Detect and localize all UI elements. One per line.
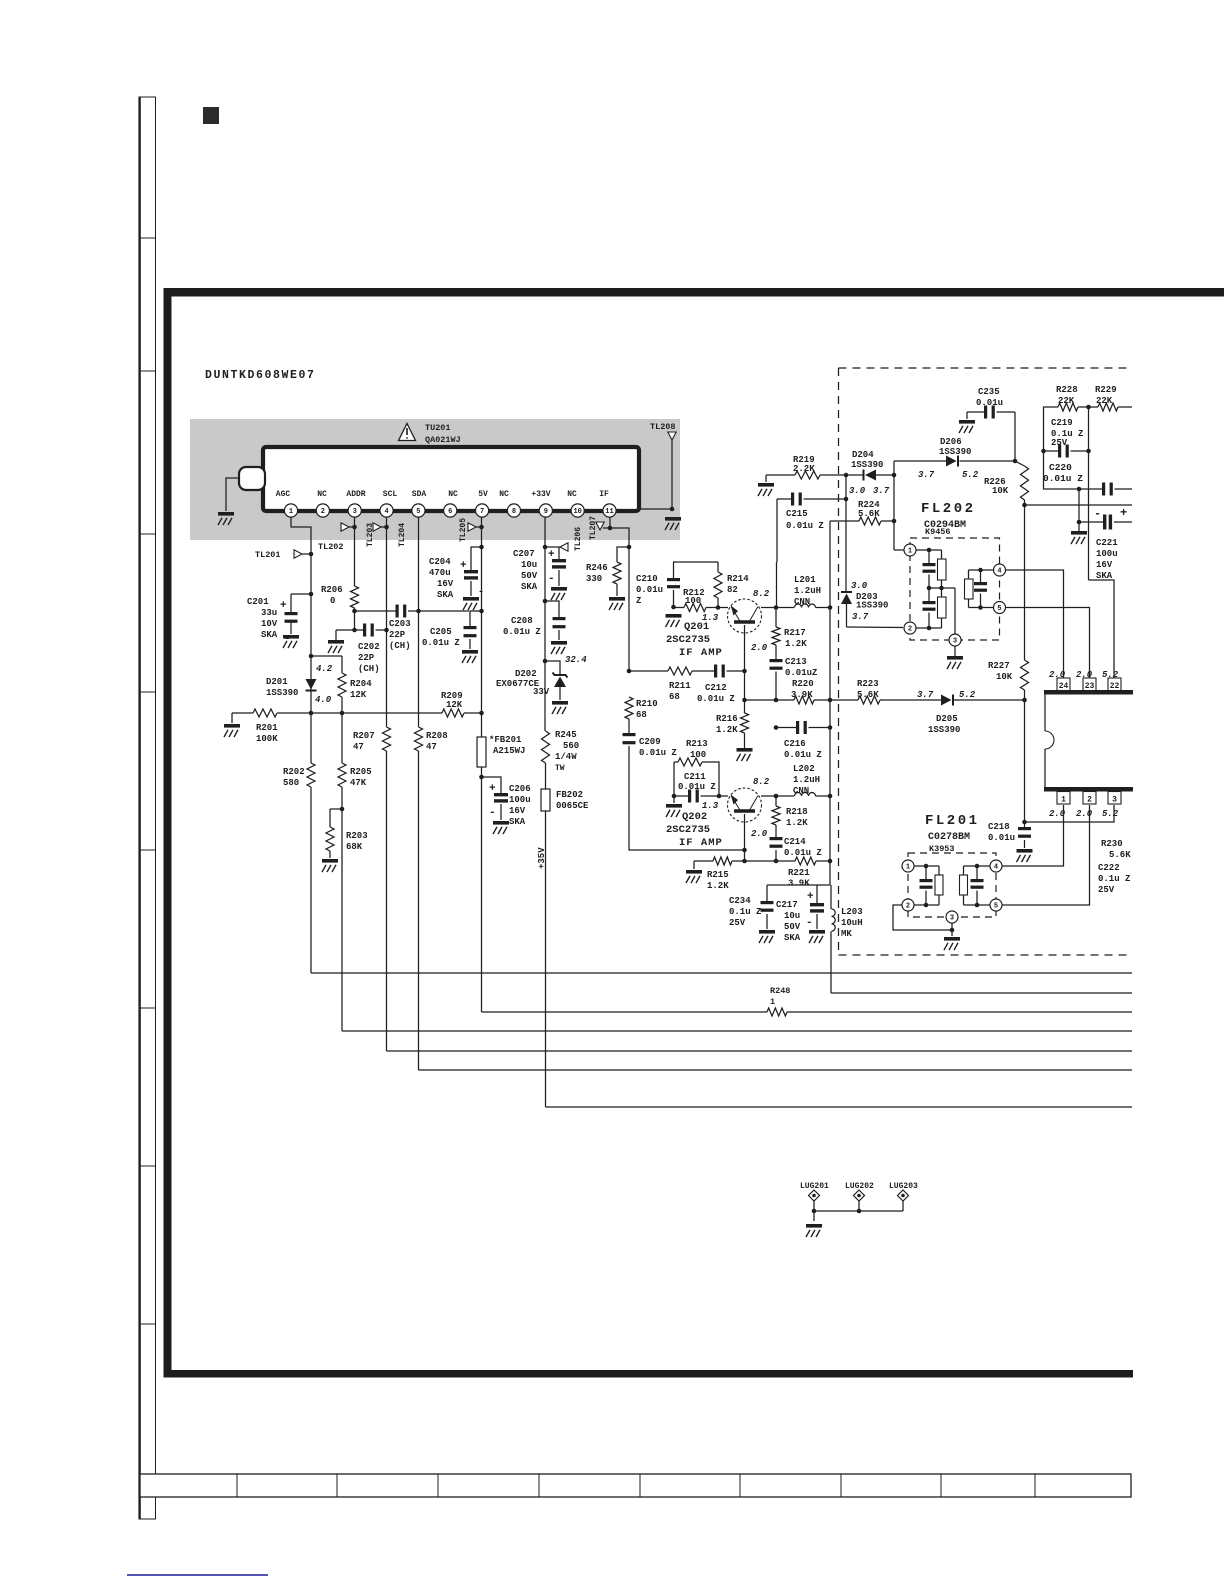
svg-text:*FB201: *FB201: [489, 735, 522, 745]
svg-text:10K: 10K: [996, 672, 1013, 682]
wire Q202 emitter: [744, 814, 746, 861]
IC pin box 2: [1083, 792, 1096, 805]
svg-text:LUG201: LUG201: [800, 1182, 829, 1191]
svg-text:0.01u Z: 0.01u Z: [422, 638, 460, 648]
svg-text:LUG203: LUG203: [889, 1182, 918, 1191]
wire Q201 collector: [761, 607, 776, 609]
svg-text:10uH: 10uH: [841, 918, 863, 928]
svg-text:8.2: 8.2: [753, 589, 770, 599]
ground C218: [1017, 849, 1033, 853]
svg-text:R211: R211: [669, 681, 691, 691]
left margin strip: [139, 97, 156, 1519]
svg-text:2.0: 2.0: [751, 829, 768, 839]
IC pin box 22: [1108, 678, 1121, 691]
wire bus 5V y1012 with R248: [482, 1011, 768, 1013]
svg-text:1: 1: [908, 547, 912, 555]
IC pin box 3: [1108, 792, 1121, 805]
svg-text:560: 560: [563, 741, 579, 751]
FL202 pin5 wire to IC pin23: [1006, 608, 1090, 679]
svg-text:100: 100: [690, 750, 706, 760]
tuner pins 1-11: [284, 504, 297, 517]
ground C211: [666, 804, 682, 808]
svg-text:3: 3: [353, 508, 357, 516]
svg-text:2.0: 2.0: [1076, 809, 1093, 819]
svg-text:R213: R213: [686, 739, 708, 749]
svg-text:25V: 25V: [729, 918, 746, 928]
svg-text:IF: IF: [599, 490, 609, 499]
wire bus AGC y973: [311, 972, 1132, 974]
ground C205: [462, 650, 478, 654]
svg-text:ADDR: ADDR: [346, 490, 365, 499]
wire pin11 down: [609, 517, 611, 528]
svg-text:10K: 10K: [992, 486, 1009, 496]
svg-text:0.1u Z: 0.1u Z: [1098, 874, 1130, 884]
svg-text:8: 8: [512, 508, 516, 516]
svg-text:C215: C215: [786, 509, 808, 519]
svg-text:0.1u Z: 0.1u Z: [729, 907, 761, 917]
FL201 pin5 wire to IC pin2: [1002, 805, 1090, 905]
svg-text:0.01u Z: 0.01u Z: [503, 627, 541, 637]
wire pin22 riser: [1089, 580, 1115, 678]
svg-text:100u: 100u: [509, 795, 531, 805]
svg-text:SKA: SKA: [261, 630, 278, 640]
svg-text:2.0: 2.0: [1076, 670, 1093, 680]
svg-text:C234: C234: [729, 896, 751, 906]
svg-text:R203: R203: [346, 831, 368, 841]
svg-text:1SS390: 1SS390: [939, 447, 971, 457]
ground R201: [224, 724, 240, 728]
svg-text:DUNTKD608WE07: DUNTKD608WE07: [205, 369, 316, 382]
FL201 pin2 ground loop: [893, 905, 952, 930]
svg-text:3.7: 3.7: [873, 486, 890, 496]
svg-text:IF AMP: IF AMP: [679, 837, 723, 849]
svg-text:2: 2: [906, 902, 910, 910]
svg-text:8.2: 8.2: [753, 777, 770, 787]
svg-text:1.3: 1.3: [702, 613, 719, 623]
wire Q202 collector: [761, 795, 776, 797]
ground R216: [737, 748, 753, 752]
svg-text:24: 24: [1059, 682, 1069, 691]
svg-text:+: +: [1120, 506, 1127, 520]
svg-text:2: 2: [1087, 796, 1092, 805]
ground C210 R212: [666, 614, 682, 618]
svg-text:3.7: 3.7: [917, 690, 934, 700]
wire L bus vertical: [829, 608, 831, 886]
svg-text:SKA: SKA: [437, 590, 454, 600]
svg-text:1/4W: 1/4W: [555, 752, 577, 762]
svg-text:32.4: 32.4: [565, 655, 587, 665]
svg-text:100K: 100K: [256, 734, 278, 744]
svg-text:16V: 16V: [509, 806, 526, 816]
svg-text:12K: 12K: [446, 700, 463, 710]
wire bus y1070: [419, 1069, 1133, 1071]
svg-text:R216: R216: [716, 714, 738, 724]
svg-text:R205: R205: [350, 767, 372, 777]
svg-text:3: 3: [950, 914, 954, 922]
svg-text:12K: 12K: [350, 690, 367, 700]
svg-text:C206: C206: [509, 784, 531, 794]
svg-text:SKA: SKA: [509, 817, 526, 827]
schematic frame border: [164, 288, 1224, 297]
svg-text:D205: D205: [936, 714, 958, 724]
wire pin1 net down to D201: [310, 594, 312, 713]
svg-text:2.0: 2.0: [1049, 809, 1066, 819]
FL201 pin 1: [902, 860, 914, 872]
svg-text:5.6K: 5.6K: [1109, 850, 1131, 860]
svg-text:NC: NC: [448, 490, 458, 499]
svg-text:C222: C222: [1098, 863, 1120, 873]
svg-text:LUG202: LUG202: [845, 1182, 874, 1191]
svg-text:1.2uH: 1.2uH: [794, 586, 821, 596]
svg-text:TL207: TL207: [589, 516, 598, 540]
FL202 pin 5: [994, 602, 1006, 614]
svg-text:25V: 25V: [1098, 885, 1115, 895]
svg-text:L202: L202: [793, 764, 815, 774]
svg-text:R207: R207: [353, 731, 375, 741]
svg-text:NC: NC: [499, 490, 509, 499]
wire bias row: [309, 711, 314, 716]
svg-text:3.0: 3.0: [849, 486, 866, 496]
svg-text:0.01u Z: 0.01u Z: [1043, 473, 1083, 484]
svg-text:3.7: 3.7: [918, 470, 935, 480]
FL202 pin4 wire to IC pin24: [1006, 570, 1064, 678]
svg-text:1SS390: 1SS390: [928, 725, 960, 735]
svg-text:C208: C208: [511, 616, 533, 626]
tuner shield gray area: [190, 419, 680, 540]
svg-text:10V: 10V: [261, 619, 278, 629]
svg-text:1.2K: 1.2K: [786, 818, 808, 828]
wire Q201 emitter: [744, 625, 746, 713]
warning triangle: [399, 424, 416, 441]
svg-text:C211: C211: [684, 772, 706, 782]
svg-text:5: 5: [416, 508, 420, 516]
wire bus y1031: [342, 1030, 1132, 1032]
svg-text:+: +: [280, 600, 287, 612]
wire bus y1051: [387, 1050, 1133, 1052]
ground C201: [283, 635, 299, 639]
svg-text:1.2K: 1.2K: [716, 725, 738, 735]
ground C217: [809, 930, 825, 934]
svg-text:L201: L201: [794, 575, 816, 585]
wire IC pin3 row: [1025, 805, 1115, 822]
svg-text:4.2: 4.2: [316, 664, 333, 674]
svg-text:0.01u: 0.01u: [636, 585, 663, 595]
wire IF line down: [628, 547, 630, 671]
FL201 pin4 wire to IC pin1: [1002, 805, 1064, 866]
wire bus +35V y1107: [546, 1106, 1133, 1108]
svg-text:1: 1: [770, 997, 775, 1007]
ground C234: [759, 930, 775, 934]
tuner antenna tab: [239, 467, 265, 490]
svg-text:0: 0: [330, 596, 335, 606]
ground C208: [551, 641, 567, 645]
svg-text:C220: C220: [1049, 462, 1072, 473]
svg-text:2.0: 2.0: [1049, 670, 1066, 680]
svg-text:3.0: 3.0: [851, 581, 868, 591]
FL202 internals: [916, 549, 942, 551]
ground C202: [328, 640, 344, 644]
ground C207: [551, 587, 567, 591]
svg-text:1.3: 1.3: [702, 801, 719, 811]
svg-text:SDA: SDA: [412, 490, 427, 499]
svg-text:(CH): (CH): [358, 664, 380, 674]
svg-text:5: 5: [997, 605, 1001, 613]
svg-text:33V: 33V: [533, 687, 550, 697]
blue footer line: [127, 1574, 268, 1576]
svg-text:22P: 22P: [358, 653, 375, 663]
svg-text:C216: C216: [784, 739, 806, 749]
svg-text:TL204: TL204: [398, 523, 407, 547]
svg-text:C203: C203: [389, 619, 411, 629]
ground R219: [758, 483, 774, 487]
svg-text:1: 1: [906, 863, 910, 871]
svg-text:TW: TW: [555, 764, 565, 773]
svg-text:1SS390: 1SS390: [851, 460, 883, 470]
svg-text:470u: 470u: [429, 568, 451, 578]
ground tuner left: [218, 512, 234, 516]
svg-text:3.7: 3.7: [852, 612, 869, 622]
svg-text:11: 11: [605, 508, 613, 516]
svg-text:R206: R206: [321, 585, 343, 595]
svg-text:+33V: +33V: [531, 490, 550, 499]
dashed module boundary: [839, 367, 1128, 369]
wire C210 R214 node: [673, 561, 718, 563]
svg-text:C202: C202: [358, 642, 380, 652]
svg-text:R217: R217: [784, 628, 806, 638]
svg-text:23: 23: [1085, 682, 1095, 691]
svg-text:TL205: TL205: [459, 518, 468, 542]
tuner TU201 body: [263, 447, 639, 511]
FL202 dashed box: [910, 538, 1000, 640]
svg-text:1SS390: 1SS390: [266, 688, 298, 698]
ground C206: [493, 821, 509, 825]
svg-text:TL206: TL206: [574, 527, 583, 551]
IC201 top bar: [1044, 690, 1133, 695]
svg-text:R215: R215: [707, 870, 729, 880]
svg-text:4: 4: [994, 863, 998, 871]
svg-text:R201: R201: [256, 723, 278, 733]
svg-text:QA021WJ: QA021WJ: [425, 435, 461, 445]
svg-text:R218: R218: [786, 807, 808, 817]
svg-text:2.0: 2.0: [751, 643, 768, 653]
svg-text:-: -: [489, 807, 496, 819]
svg-text:0065CE: 0065CE: [556, 801, 589, 811]
svg-text:C212: C212: [705, 683, 727, 693]
svg-text:R223: R223: [857, 679, 879, 689]
svg-text:2SC2735: 2SC2735: [666, 634, 710, 646]
ground R215: [686, 870, 702, 874]
IC201 bottom bar: [1044, 787, 1133, 792]
svg-text:FL202: FL202: [921, 501, 976, 517]
svg-text:22: 22: [1110, 682, 1120, 691]
svg-text:R230: R230: [1101, 839, 1123, 849]
svg-text:R202: R202: [283, 767, 305, 777]
svg-text:D204: D204: [852, 450, 874, 460]
ground FL202 pin3: [947, 656, 963, 660]
svg-text:50V: 50V: [521, 571, 538, 581]
svg-text:82: 82: [727, 585, 738, 595]
svg-text:FB202: FB202: [556, 790, 583, 800]
wire cap row: [355, 610, 398, 612]
svg-text:5.2: 5.2: [1102, 809, 1119, 819]
svg-text:47K: 47K: [350, 778, 367, 788]
svg-text:3.9K: 3.9K: [788, 879, 810, 889]
svg-text:D202: D202: [515, 669, 537, 679]
FL202 pin1 wire: [894, 549, 904, 551]
svg-text:R204: R204: [350, 679, 372, 689]
svg-text:R214: R214: [727, 574, 749, 584]
svg-text:IF AMP: IF AMP: [679, 647, 723, 659]
svg-text:R208: R208: [426, 731, 448, 741]
svg-text:580: 580: [283, 778, 299, 788]
ground tuner right: [665, 517, 681, 521]
wire pin3 down: [354, 517, 356, 586]
svg-text:68K: 68K: [346, 842, 363, 852]
svg-text:10: 10: [573, 508, 581, 516]
svg-text:2: 2: [908, 625, 912, 633]
svg-text:10u: 10u: [521, 560, 537, 570]
svg-text:0.01u Z: 0.01u Z: [639, 748, 677, 758]
wire emitter row R220 R223: [742, 698, 747, 703]
wire pin9 down: [544, 517, 546, 661]
svg-text:SKA: SKA: [521, 582, 538, 592]
svg-text:TL201: TL201: [255, 550, 281, 560]
svg-text:2: 2: [321, 508, 325, 516]
bottom fold ruler: [140, 1474, 1131, 1497]
FL202 pin 2: [904, 622, 916, 634]
svg-text:Z: Z: [636, 596, 641, 606]
FL201 pin 4: [990, 860, 1002, 872]
svg-text:D206: D206: [940, 437, 962, 447]
wire bus FL y993: [831, 992, 1132, 994]
wire tab to ground: [226, 478, 240, 511]
svg-text:Q202: Q202: [682, 811, 707, 823]
svg-text:1.2K: 1.2K: [707, 881, 729, 891]
svg-text:(CH): (CH): [389, 641, 411, 651]
svg-text:7: 7: [480, 508, 484, 516]
svg-text:1.2K: 1.2K: [785, 639, 807, 649]
svg-text:C207: C207: [513, 549, 535, 559]
svg-text:R220: R220: [792, 679, 814, 689]
svg-text:+: +: [807, 891, 814, 903]
ground LUG: [806, 1224, 822, 1228]
IC pin box 24: [1057, 678, 1070, 691]
IC pin box 23: [1083, 678, 1096, 691]
svg-text:1: 1: [1061, 796, 1066, 805]
svg-text:4.0: 4.0: [315, 695, 332, 705]
svg-text:C201: C201: [247, 597, 269, 607]
svg-text:5V: 5V: [478, 490, 488, 499]
svg-text:C221: C221: [1096, 538, 1118, 548]
wire D204 node vertical: [845, 475, 847, 592]
svg-text:NC: NC: [567, 490, 577, 499]
svg-text:5: 5: [994, 902, 998, 910]
svg-text:16V: 16V: [1096, 560, 1113, 570]
svg-text:R221: R221: [788, 868, 810, 878]
wire pin5 down: [418, 517, 420, 611]
svg-text:1.2uH: 1.2uH: [793, 775, 820, 785]
svg-text:L203: L203: [841, 907, 863, 917]
svg-text:R229: R229: [1095, 385, 1117, 395]
svg-text:-: -: [478, 587, 484, 598]
ground C204: [463, 597, 479, 601]
svg-text:5.2: 5.2: [1102, 670, 1119, 680]
svg-text:1: 1: [289, 508, 293, 516]
svg-text:D201: D201: [266, 677, 288, 687]
svg-text:0.01u: 0.01u: [976, 398, 1003, 408]
svg-text:-: -: [1094, 507, 1101, 521]
svg-text:0.01u Z: 0.01u Z: [697, 694, 735, 704]
svg-text:C213: C213: [785, 657, 807, 667]
svg-text:TL208: TL208: [650, 422, 676, 432]
svg-text:2SC2735: 2SC2735: [666, 824, 710, 836]
svg-text:0.01uZ: 0.01uZ: [785, 668, 817, 678]
svg-text:68: 68: [669, 692, 680, 702]
FL202 pin 4: [994, 564, 1006, 576]
svg-text:R228: R228: [1056, 385, 1078, 395]
svg-text:TU201: TU201: [425, 423, 451, 433]
svg-text:100u: 100u: [1096, 549, 1118, 559]
svg-text:47: 47: [426, 742, 437, 752]
svg-text:C235: C235: [978, 387, 1000, 397]
svg-text:+35V: +35V: [537, 847, 547, 869]
svg-text:A215WJ: A215WJ: [493, 746, 525, 756]
svg-text:330: 330: [586, 574, 602, 584]
wire pin1 net to bus: [310, 787, 312, 973]
svg-text:0.01u: 0.01u: [988, 833, 1015, 843]
svg-text:R246: R246: [586, 563, 608, 573]
svg-text:33u: 33u: [261, 608, 277, 618]
wire pin1 down: [291, 517, 311, 594]
IC201 left edge with notch: [1044, 694, 1046, 731]
svg-text:5.2: 5.2: [959, 690, 976, 700]
svg-text:C0278BM: C0278BM: [928, 832, 970, 843]
IC pin box 1: [1057, 792, 1070, 805]
svg-text:4: 4: [997, 567, 1001, 575]
svg-text:9: 9: [544, 508, 548, 516]
svg-text:C217: C217: [776, 900, 798, 910]
svg-text:3: 3: [1112, 796, 1117, 805]
svg-text:C214: C214: [784, 837, 806, 847]
black index square: [203, 107, 219, 124]
svg-text:FL201: FL201: [925, 813, 980, 829]
svg-text:1SS390: 1SS390: [856, 601, 888, 611]
svg-text:C218: C218: [988, 822, 1010, 832]
svg-text:-: -: [806, 917, 813, 929]
svg-text:0.01u Z: 0.01u Z: [784, 848, 822, 858]
svg-text:C204: C204: [429, 557, 451, 567]
svg-text:3: 3: [953, 637, 957, 645]
ground R246: [609, 597, 625, 601]
svg-text:68: 68: [636, 710, 647, 720]
svg-text:TL202: TL202: [318, 542, 344, 552]
wire AGC out right: [1025, 504, 1133, 506]
FL201 dashed box: [908, 853, 996, 917]
FL202 pin 1: [904, 544, 916, 556]
svg-text:47: 47: [353, 742, 364, 752]
ground D202: [552, 701, 568, 705]
FL201 pin 3: [946, 911, 958, 923]
svg-text:C219: C219: [1051, 418, 1073, 428]
wire pin4 down: [386, 517, 388, 727]
svg-text:5.2: 5.2: [962, 470, 979, 480]
svg-text:R248: R248: [770, 986, 790, 996]
svg-text:AGC: AGC: [276, 490, 291, 499]
svg-text:SKA: SKA: [784, 933, 801, 943]
FL201 internals: [914, 865, 939, 867]
ground C235: [959, 420, 975, 424]
svg-text:6: 6: [448, 508, 452, 516]
